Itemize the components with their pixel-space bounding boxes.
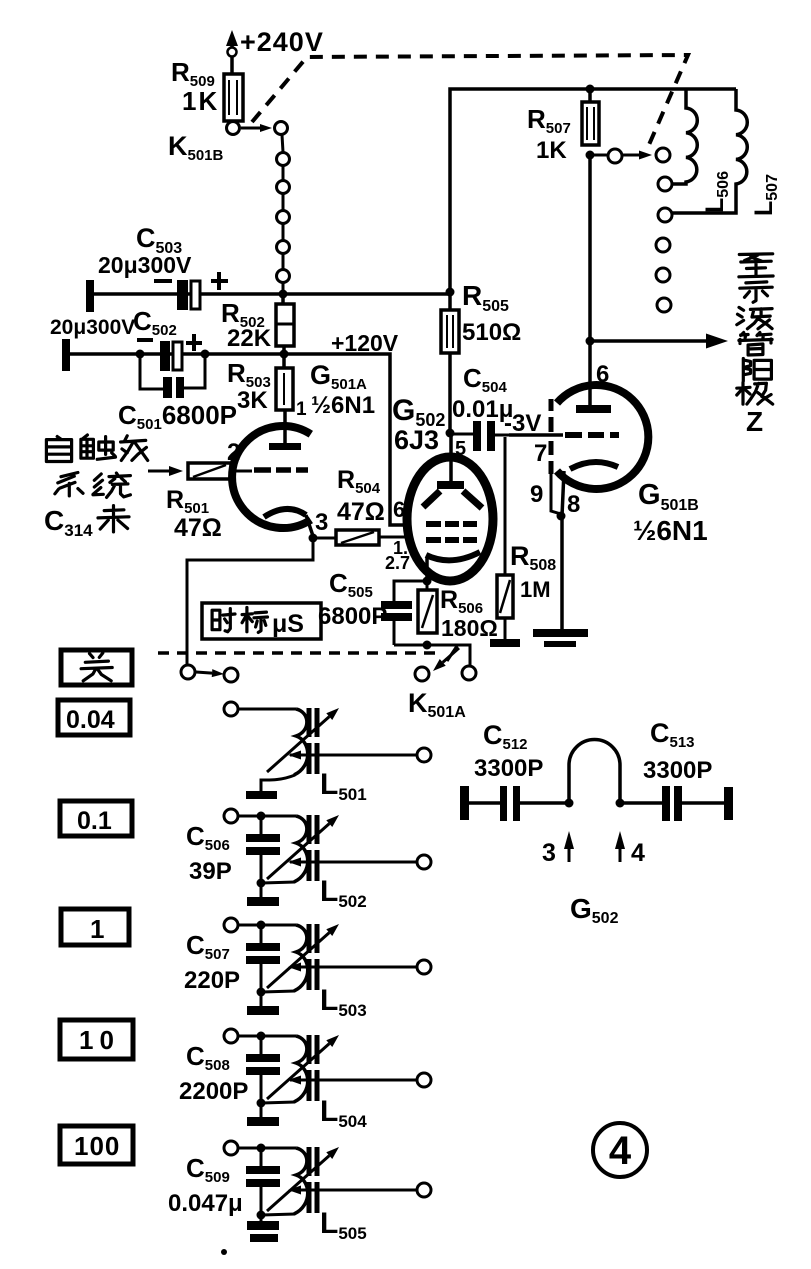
junction C506 top — [257, 812, 266, 821]
svg-text:2.7: 2.7 — [385, 553, 410, 573]
grid wire to G501B pin7 — [509, 433, 563, 437]
wire coil bottom to junction L502 — [262, 882, 295, 883]
junction C509 bottom — [257, 1211, 266, 1220]
ground lead L503 — [260, 992, 263, 1006]
tap wire L505 with arrowhead — [290, 1189, 417, 1192]
switch wiper arrow right section — [623, 154, 639, 157]
svg-text:6J3: 6J3 — [394, 425, 439, 455]
wire R505 to plate node — [448, 353, 452, 433]
capacitor C502 electrolytic — [160, 341, 170, 371]
wire terminal to coil L502 — [238, 815, 296, 818]
junction cathode node — [557, 512, 566, 521]
selector box 0.1 — [60, 801, 132, 836]
svg-text:6: 6 — [596, 361, 609, 388]
terminal bar W2 left — [62, 339, 70, 371]
junction C506 bottom — [257, 879, 266, 888]
capacitor C504 — [450, 433, 473, 436]
svg-text:4: 4 — [609, 1129, 632, 1173]
heater loop G502 — [569, 740, 620, 803]
tube G502 envelope — [407, 457, 493, 581]
wire W1 +240V rail y294 — [90, 292, 450, 296]
adjust arrow L505 — [267, 1156, 329, 1211]
switch K501 right section contacts — [608, 149, 622, 163]
wire C512 to heater loop — [520, 801, 569, 805]
heater pin 3 arrow — [568, 848, 571, 862]
plate bar G501A — [269, 443, 301, 450]
svg-text:39P: 39P — [189, 858, 232, 885]
svg-text:4: 4 — [631, 839, 645, 867]
junction C501 left — [136, 350, 145, 359]
label to-CRT-anode Chinese column: zhi shi bo guan yang ji Z — [739, 254, 773, 277]
wire top rail y89 with corners — [450, 89, 736, 292]
junction arrow wire — [586, 337, 595, 346]
cathode G501A — [264, 509, 306, 517]
svg-text:510Ω: 510Ω — [462, 319, 521, 346]
node 3 junction — [309, 534, 318, 543]
inductor L501 winding — [294, 709, 308, 775]
junction C507 bottom — [257, 988, 266, 997]
svg-text:100: 100 — [74, 1131, 120, 1161]
svg-text:0.1: 0.1 — [77, 807, 112, 835]
tap wire L502 with arrowhead — [290, 861, 417, 864]
junction plate node G502 — [446, 429, 455, 438]
svg-text:2200P: 2200P — [179, 1078, 248, 1105]
svg-text:0.04: 0.04 — [66, 706, 115, 734]
switch K501A wiper arrow — [447, 646, 457, 661]
svg-text:C5016800P: C5016800P — [118, 400, 237, 433]
unused contact circles K501 right — [656, 238, 670, 252]
inductor L505 winding — [294, 1148, 308, 1214]
wire to K501A right contact — [427, 645, 470, 666]
resistor R507 — [588, 89, 592, 102]
svg-text:7: 7 — [534, 440, 547, 467]
svg-text:47Ω: 47Ω — [337, 498, 385, 526]
wire to C512 — [469, 801, 500, 805]
gang linkage dashed line K501A — [158, 651, 438, 655]
terminal circle L502 right — [417, 855, 431, 869]
wire node3 down to K501A left branch — [187, 538, 313, 666]
svg-text:½6N1: ½6N1 — [311, 392, 375, 419]
tap wire L504 with arrowhead — [290, 1079, 417, 1082]
wire loop to C513 — [620, 801, 662, 805]
terminal circle L504 top — [224, 1029, 238, 1043]
ground G501B cathode — [533, 629, 588, 637]
inductor L503 winding — [294, 925, 308, 991]
box label shi-biao-uS (time mark) — [202, 603, 321, 639]
core bars L502 — [307, 815, 312, 844]
label input Chinese: zi chu fa / xi tong / C314 lai — [46, 437, 71, 462]
wire coil bottom to junction L504 — [262, 1102, 295, 1103]
adjust arrow L504 — [267, 1044, 329, 1099]
wire R505 branch x450 — [448, 292, 452, 310]
svg-text:3K: 3K — [237, 387, 268, 414]
resistor R505 — [441, 310, 459, 353]
svg-text:1K: 1K — [536, 137, 567, 164]
resistor R503 — [282, 346, 286, 354]
junction C508 bottom — [257, 1099, 266, 1108]
resistor R502 — [281, 294, 285, 304]
svg-text:+120V: +120V — [331, 330, 399, 356]
switch wiper arrow left section — [196, 672, 212, 673]
junction heater pin4 — [616, 799, 625, 808]
wire coil bottom to junction L503 — [262, 991, 295, 992]
ground lead L504 — [260, 1103, 263, 1117]
terminal bar left C512 — [460, 786, 469, 820]
inductor L506 — [672, 89, 697, 184]
shield lead to cathode node — [551, 474, 561, 514]
switch K501A left section contacts — [181, 665, 195, 679]
core bars L504 — [307, 1035, 312, 1064]
cathode lead G502 — [425, 557, 429, 581]
plate bar G502 — [437, 481, 464, 489]
stray dot — [221, 1249, 227, 1255]
svg-text:1M: 1M — [520, 577, 551, 602]
junction heater pin3 — [565, 799, 574, 808]
svg-text:6800P: 6800P — [318, 603, 387, 630]
capacitor C508 2200P — [260, 1036, 263, 1054]
wire cathode to ground — [560, 516, 564, 629]
junction C507 top — [257, 921, 266, 930]
terminal circle L504 right — [417, 1073, 431, 1087]
ground bar L501 — [246, 791, 277, 799]
tube G501A envelope — [232, 426, 311, 528]
wire W2 +120V rail y354 — [67, 352, 284, 356]
wire plate line x590 — [588, 155, 592, 409]
wire C513 to terminal — [682, 801, 724, 805]
capacitor C501 parallel loop — [140, 354, 163, 389]
selector box guan (off) — [61, 650, 132, 685]
selector box 100 — [60, 1126, 133, 1164]
ground lead L505 — [260, 1215, 263, 1221]
wire terminal to coil L504 — [238, 1035, 296, 1038]
label L507 rotated — [750, 174, 781, 216]
wire R507 to switch — [590, 154, 608, 157]
junction C501 right — [201, 350, 210, 359]
inductor L502 winding — [294, 816, 308, 882]
svg-text:20μ300V: 20μ300V — [98, 252, 192, 278]
adjust arrow L503 — [267, 933, 329, 988]
svg-text:3300P: 3300P — [643, 757, 712, 784]
capacitor C506 39P — [260, 816, 263, 834]
wire terminal to coil L505 — [238, 1147, 296, 1150]
svg-text:8: 8 — [567, 491, 580, 518]
core bars L503 — [307, 924, 312, 953]
svg-text:3: 3 — [542, 839, 556, 867]
node +240V supply arrow — [230, 42, 234, 74]
svg-text:9: 9 — [530, 481, 543, 508]
svg-text:1: 1 — [90, 914, 104, 944]
resistor R501 adjustable — [188, 463, 231, 479]
wire chain segments — [282, 135, 283, 292]
inductor L504 winding — [294, 1036, 308, 1102]
switch K501B contact chain circles — [277, 153, 290, 166]
terminal bar right C513 — [724, 787, 733, 820]
resistor R508 — [504, 437, 507, 575]
core bars L501 — [307, 708, 312, 737]
gang linkage dashed line (K501B to K501 right section) — [252, 55, 688, 147]
terminal circle L502 top — [224, 809, 238, 823]
wire R504 to G502 grid — [379, 536, 409, 539]
svg-text:20μ300V: 20μ300V — [50, 316, 135, 339]
wire to C505 branch — [394, 581, 427, 601]
junction R506 bottom — [423, 641, 432, 650]
plate bar G501B — [576, 405, 611, 413]
terminal circle L501 top — [224, 702, 238, 716]
resistor R504 wire left — [313, 537, 336, 540]
selector box 1 — [61, 909, 129, 945]
svg-text:+240V: +240V — [240, 27, 324, 57]
terminal bar W1 left — [86, 280, 94, 312]
svg-text:½6N1: ½6N1 — [633, 515, 708, 546]
svg-text:0.047μ: 0.047μ — [168, 1190, 243, 1217]
arrow input from C314 — [148, 470, 169, 473]
svg-text:μS: μS — [272, 610, 304, 638]
page number circled 4 — [593, 1123, 647, 1177]
selector box 10 — [60, 1020, 133, 1059]
junction W1/chain — [279, 290, 288, 299]
svg-text:22K: 22K — [227, 325, 272, 352]
switch K501B wiper arrow — [241, 127, 260, 130]
svg-text:3: 3 — [315, 509, 328, 536]
capacitor C505 — [381, 601, 412, 609]
svg-text:10: 10 — [79, 1025, 120, 1055]
wire terminal to coil L503 — [238, 924, 296, 927]
wire R501 to grid — [231, 470, 252, 473]
capacitor C509 0.047μ — [260, 1148, 263, 1166]
adjust arrow L501 — [267, 717, 329, 772]
capacitor C507 220P — [260, 925, 263, 943]
svg-text:1K: 1K — [182, 86, 219, 116]
coil bottom lead L501 — [261, 775, 295, 791]
plate lead G501A pin1 — [283, 410, 287, 444]
plate lead G502 pin5 — [449, 433, 453, 481]
tube G501B envelope — [557, 385, 648, 489]
extra ground bar L505 — [250, 1234, 278, 1242]
core bars L505 — [307, 1147, 312, 1176]
junction C508 top — [257, 1032, 266, 1041]
terminal circle L505 top — [224, 1141, 238, 1155]
switch K501A contacts — [415, 667, 429, 681]
terminal circle L503 right — [417, 960, 431, 974]
wire terminal to coil L501 — [238, 708, 296, 711]
tap wire L503 with arrowhead — [290, 966, 417, 969]
terminal circle L501 right — [417, 748, 431, 762]
svg-text:1: 1 — [296, 399, 307, 420]
screen chevron dashes G502 — [423, 491, 440, 507]
ground lead L502 — [260, 883, 263, 897]
cathode arc G502 — [426, 552, 480, 560]
svg-text:220P: 220P — [184, 967, 240, 994]
junction C509 top — [257, 1144, 266, 1153]
grid dashes G501A — [254, 467, 308, 473]
wire +120V to G502 screen grid pin6 — [284, 354, 409, 525]
resistor R506 — [426, 581, 429, 590]
cathode arc G501B — [570, 462, 618, 469]
terminal circle L503 top — [224, 918, 238, 932]
capacitor C503 electrolytic — [177, 280, 188, 310]
terminal circle L505 right — [417, 1183, 431, 1197]
junction W2/R502/R503 — [280, 350, 289, 359]
grid dashes G501B — [565, 432, 619, 438]
arrow wire to CRT anode Z — [590, 339, 706, 343]
tap wire L501 with arrowhead — [290, 754, 417, 757]
shield dashes pin9 — [549, 399, 554, 474]
capacitor C513 — [662, 786, 670, 821]
svg-text:47Ω: 47Ω — [174, 514, 222, 542]
switch K501B section 1 contacts — [227, 122, 240, 135]
junction R507 top — [586, 85, 595, 94]
selector box 0.04 — [58, 700, 130, 735]
inductor L507 — [672, 89, 747, 213]
capacitor C512 — [500, 786, 507, 821]
junction W1/R505 branch — [446, 288, 455, 297]
resistor R509 — [224, 74, 243, 121]
wire coil bottom to junction L505 — [262, 1214, 295, 1215]
junction cathode node G502 — [423, 577, 432, 586]
label L506 rotated — [701, 171, 732, 213]
grid row2 dashes G502 — [426, 537, 477, 543]
junction R507 bottom — [586, 151, 595, 160]
ground R508 — [504, 618, 507, 639]
adjust arrow L502 — [267, 824, 329, 879]
svg-text:Z: Z — [746, 406, 763, 437]
svg-text:3300P: 3300P — [474, 755, 543, 782]
grid row1 dashes G502 — [426, 521, 477, 527]
resistor R504 — [336, 530, 379, 545]
heater pin 4 arrow — [619, 848, 622, 862]
svg-text:180Ω: 180Ω — [441, 615, 498, 641]
cathode lead G501B pin8 — [562, 471, 564, 516]
svg-text:-3V: -3V — [504, 410, 541, 437]
